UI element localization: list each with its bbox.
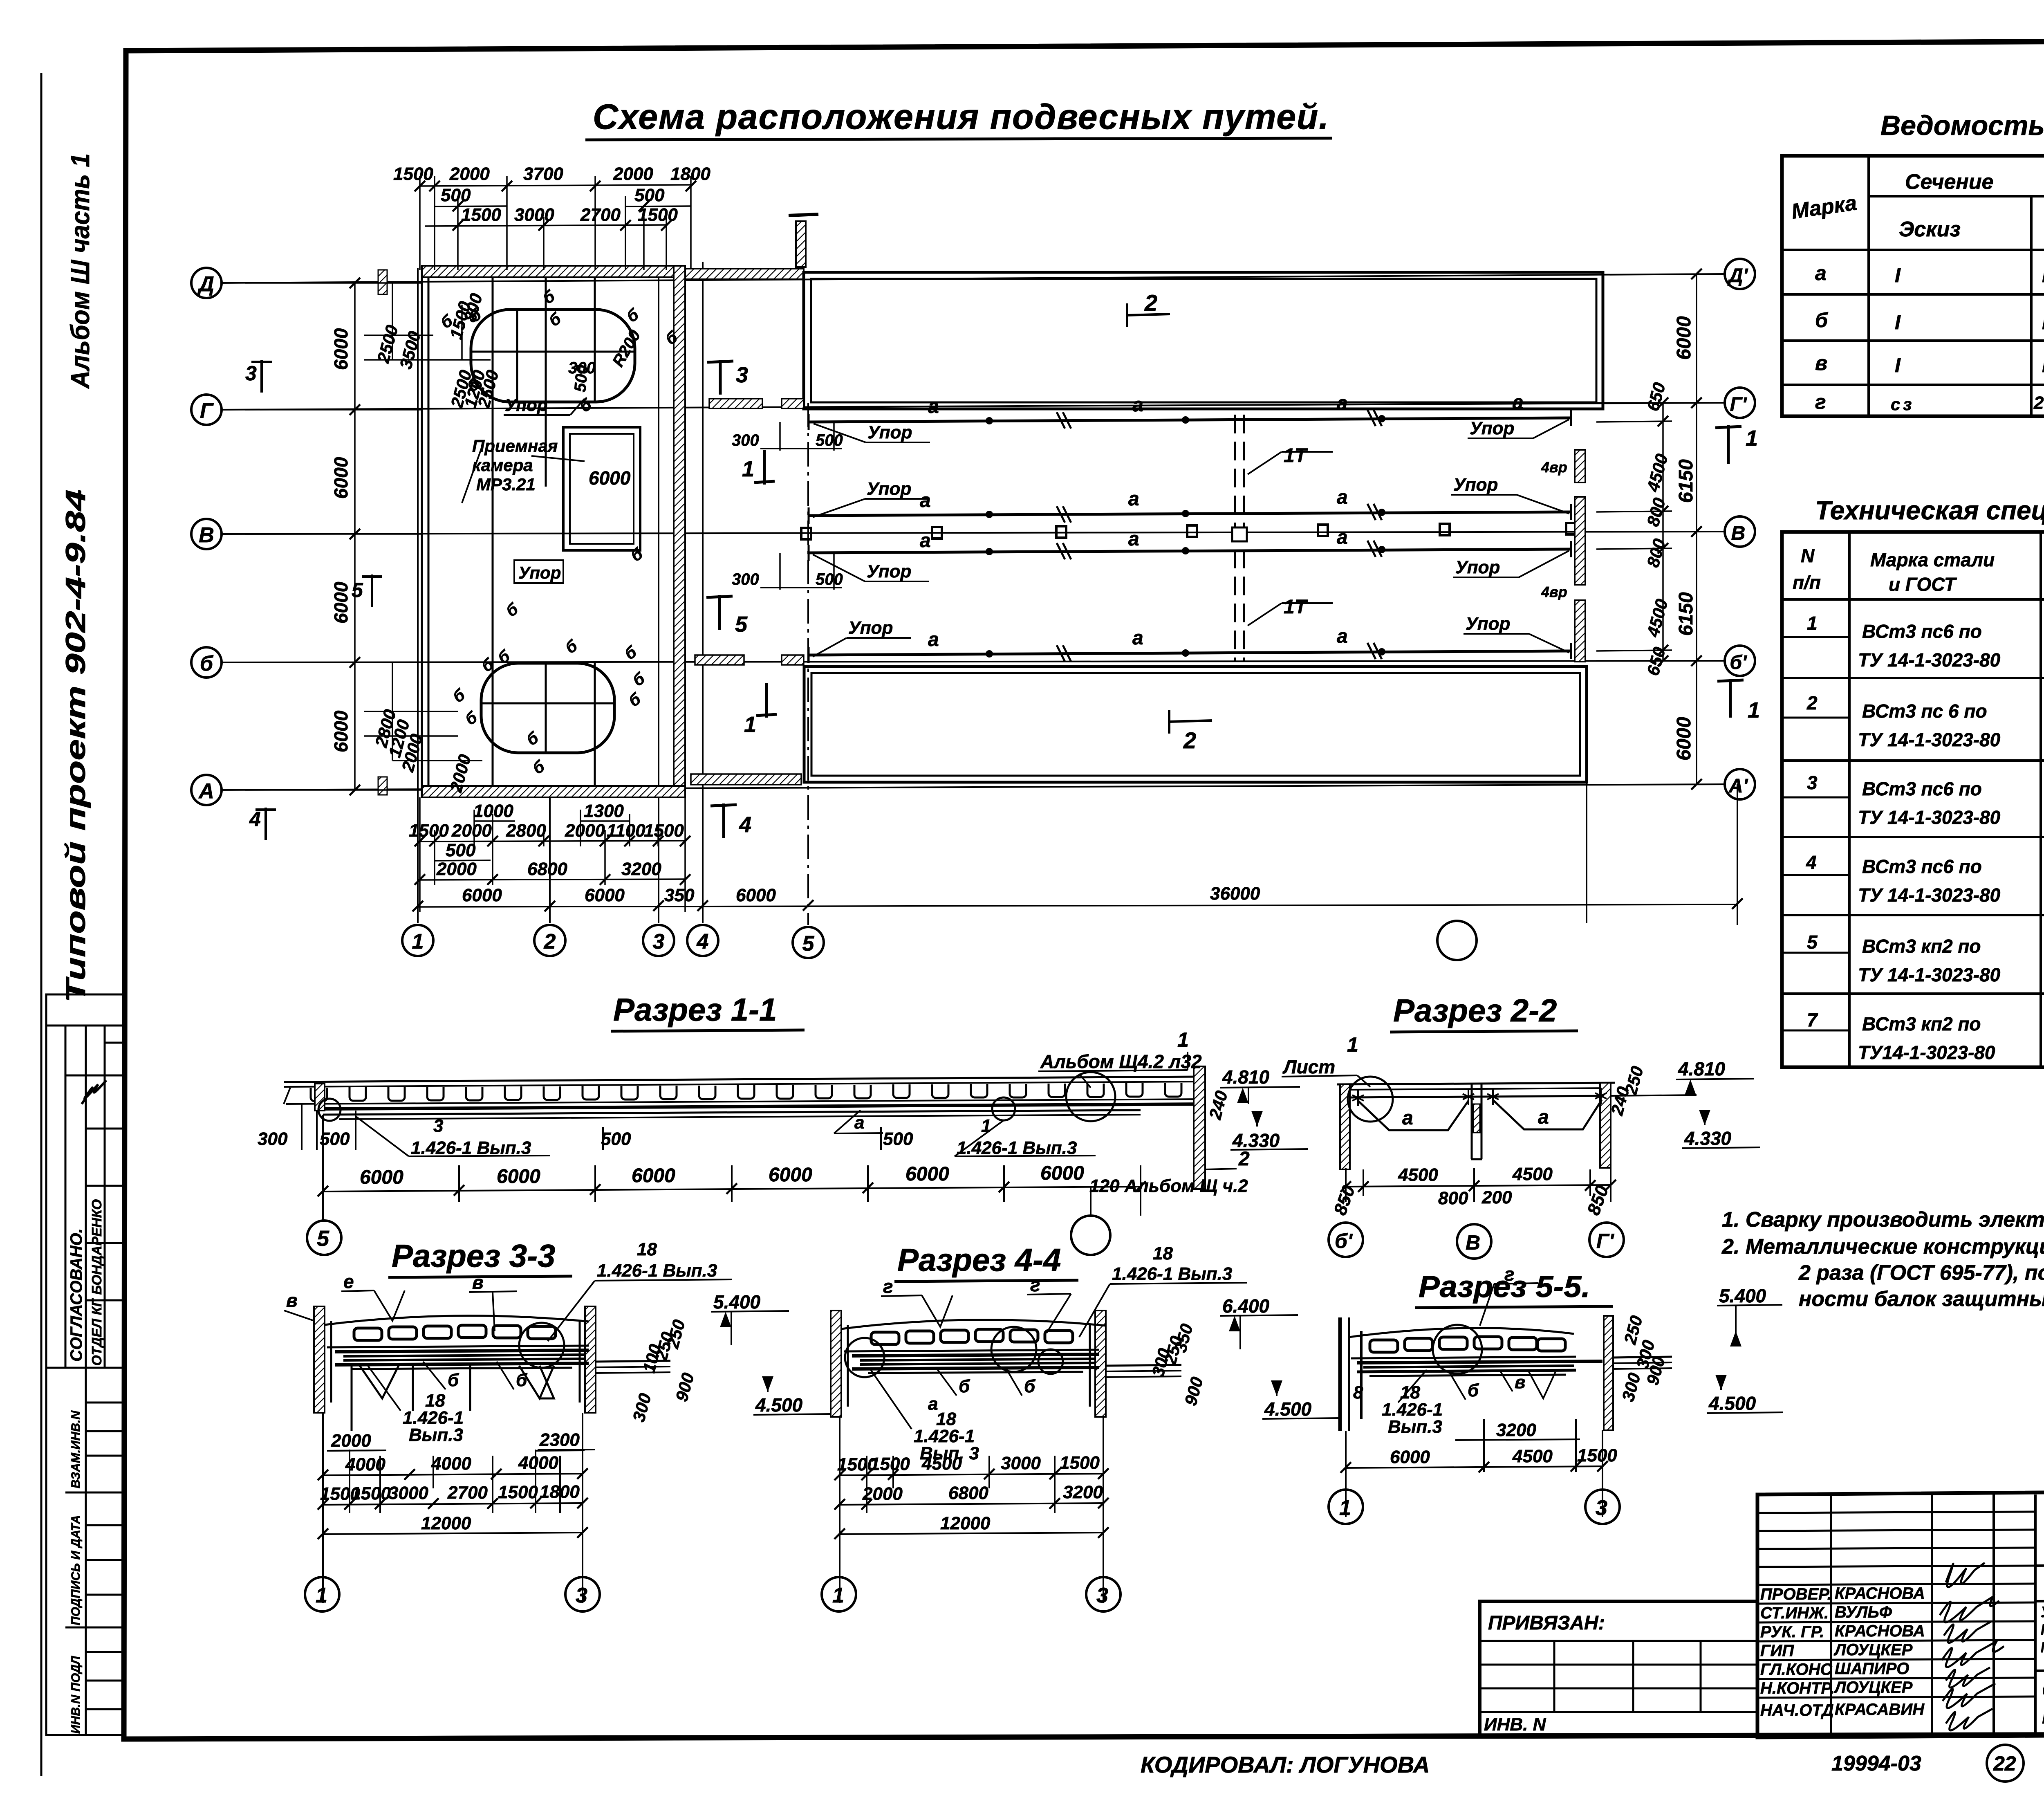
svg-text:Альбом Щ4.2 л32: Альбом Щ4.2 л32 (1040, 1051, 1202, 1072)
wall stubs on grid D and A (378, 270, 387, 294)
svg-text:4: 4 (697, 930, 709, 954)
svg-text:а: а (1337, 487, 1348, 508)
svg-text:500: 500 (816, 431, 843, 449)
svg-text:ПРИВЯЗАН:: ПРИВЯЗАН: (1488, 1612, 1605, 1634)
svg-text:а: а (1815, 262, 1827, 285)
band on axis D between buildings (685, 269, 804, 279)
grid line V (221, 532, 1725, 534)
svg-text:5: 5 (352, 579, 363, 601)
right dim chains (1587, 274, 1725, 784)
grid line A (221, 784, 1725, 790)
svg-text:18: 18 (637, 1239, 657, 1259)
svg-text:4.500: 4.500 (1264, 1398, 1312, 1420)
svg-text:а: а (920, 490, 931, 512)
svg-text:Упор: Упор (1466, 614, 1510, 634)
left grid circles (191, 268, 222, 805)
svg-text:4: 4 (739, 812, 751, 837)
svg-text:г: г (1504, 1263, 1515, 1285)
svg-text:4500: 4500 (1512, 1446, 1553, 1466)
svg-text:2: 2 (1144, 290, 1157, 316)
right wall stubs (1575, 450, 1585, 482)
svg-text:1: 1 (1339, 1496, 1351, 1520)
svg-text:2000: 2000 (565, 821, 605, 841)
svg-text:ТУ 14-1-3023-80: ТУ 14-1-3023-80 (1858, 807, 2001, 828)
svg-text:а: а (1538, 1106, 1549, 1128)
svg-text:а: а (1337, 626, 1348, 647)
svg-text:1: 1 (1347, 1033, 1358, 1056)
svg-text:6000: 6000 (330, 457, 352, 499)
svg-text:б: б (1815, 309, 1829, 332)
svg-text:ТУ 14-1-3023-80: ТУ 14-1-3023-80 (1858, 884, 2001, 906)
svg-text:6000: 6000 (462, 885, 502, 905)
svg-text:6000: 6000 (497, 1166, 540, 1187)
wall stub above tank2 left edge (796, 221, 806, 267)
svg-text:6000: 6000 (632, 1165, 675, 1187)
svg-text:2000: 2000 (613, 164, 653, 184)
svg-text:ИНВ.N ПОДЛ: ИНВ.N ПОДЛ (69, 1656, 83, 1734)
svg-text:4000: 4000 (518, 1453, 558, 1473)
svg-text:ЛОУЦКЕР: ЛОУЦКЕР (1833, 1679, 1913, 1697)
svg-text:а: а (1132, 627, 1143, 649)
svg-text:1Т: 1Т (1284, 596, 1308, 618)
svg-text:КРАСНОВА: КРАСНОВА (1835, 1584, 1925, 1602)
svg-text:Разрез 1-1: Разрез 1-1 (613, 992, 777, 1028)
svg-text:3: 3 (1807, 772, 1818, 793)
svg-text:а: а (1128, 488, 1139, 510)
svg-text:1800: 1800 (540, 1482, 580, 1502)
upper rail loop (471, 310, 635, 402)
svg-text:1800: 1800 (670, 164, 710, 184)
svg-text:Г: Г (200, 399, 214, 423)
svg-text:2000: 2000 (449, 164, 490, 184)
svg-text:I: I (2042, 264, 2044, 287)
svg-text:Упор: Упор (518, 563, 561, 582)
svg-text:а: а (854, 1113, 864, 1133)
svg-text:Г': Г' (1596, 1230, 1615, 1252)
svg-text:Сечение: Сечение (1905, 170, 1994, 194)
privyazan strip (1480, 1601, 1757, 1736)
svg-text:В: В (199, 523, 214, 547)
rail dots (986, 415, 1385, 658)
svg-text:РУК. ГР.: РУК. ГР. (1760, 1623, 1824, 1641)
right end column line (1737, 784, 1738, 925)
svg-text:б: б (1468, 1380, 1479, 1400)
svg-text:ПОДВЕСНЫХ ПУТЕЙ.: ПОДВЕСНЫХ ПУТЕЙ. (2042, 1705, 2044, 1728)
svg-text:500: 500 (601, 1129, 631, 1149)
svg-text:а: а (928, 396, 939, 417)
svg-text:3200: 3200 (1063, 1482, 1103, 1502)
svg-text:ГЛ.КОНС: ГЛ.КОНС (1760, 1661, 1833, 1679)
grid line B (221, 661, 1725, 662)
svg-text:1500: 1500 (393, 164, 433, 184)
svg-text:6800: 6800 (527, 859, 567, 879)
svg-text:5.400: 5.400 (1719, 1285, 1766, 1306)
svg-text:ПОДПИСЬ И ДАТА: ПОДПИСЬ И ДАТА (69, 1515, 83, 1625)
svg-text:1Т: 1Т (1284, 445, 1308, 467)
svg-text:ПРОИЗВОДИТЕЛЬНОСТЬЮ 70тыс.м3/с: ПРОИЗВОДИТЕЛЬНОСТЬЮ 70тыс.м3/сутки (2041, 1639, 2044, 1656)
svg-text:4000: 4000 (345, 1454, 385, 1474)
section 4-4 walls (831, 1311, 841, 1417)
svg-text:2. Металлические конструкции о: 2. Металлические конструкции окрасить ма… (1721, 1235, 2044, 1259)
svg-text:12000: 12000 (940, 1513, 991, 1533)
svg-text:1000: 1000 (473, 801, 513, 821)
svg-text:2700: 2700 (580, 205, 621, 225)
staff rows (1760, 1584, 1925, 1719)
svg-text:2300: 2300 (539, 1430, 580, 1450)
svg-text:1500: 1500 (1060, 1453, 1100, 1473)
svg-text:а: а (1513, 392, 1524, 413)
section 4-4 leader circles (845, 1338, 884, 1377)
section 4-4 roof (841, 1320, 1106, 1329)
svg-text:3: 3 (653, 930, 665, 954)
svg-text:УСТАНОВКА ДООЧИСТКИ СТОЧНЫХ ВО: УСТАНОВКА ДООЧИСТКИ СТОЧНЫХ ВОД (2041, 1604, 2044, 1620)
section 3-3 roof (325, 1316, 589, 1325)
svg-text:5: 5 (735, 612, 748, 637)
svg-text:НАЧ.ОТД: НАЧ.ОТД (1760, 1701, 1834, 1719)
svg-text:в: в (1515, 1372, 1526, 1392)
svg-text:2: 2 (1238, 1148, 1250, 1170)
roof ribs (311, 1083, 1181, 1101)
svg-text:5: 5 (317, 1226, 329, 1251)
svg-text:СОГЛАСОВАНО.: СОГЛАСОВАНО. (67, 1228, 85, 1362)
svg-text:3: 3 (1596, 1496, 1607, 1520)
svg-text:Ведомость элементов.: Ведомость элементов. (1880, 110, 2044, 141)
top wall band (422, 266, 685, 277)
right wall hatched (674, 266, 685, 797)
svg-text:СХЕМА РАСПОЛОЖЕНИЯ: СХЕМА РАСПОЛОЖЕНИЯ (2042, 1679, 2044, 1701)
section 5-5 walls (1340, 1317, 1361, 1431)
svg-text:500: 500 (446, 840, 476, 860)
svg-text:6000: 6000 (585, 885, 625, 905)
svg-text:1.426-1 Вып.3: 1.426-1 Вып.3 (1112, 1264, 1232, 1284)
lower tank 2 (804, 667, 1587, 782)
svg-text:КРАСНОВА: КРАСНОВА (1835, 1622, 1925, 1640)
svg-text:3000: 3000 (1001, 1453, 1041, 1473)
svg-text:Эскиз: Эскиз (1899, 218, 1961, 241)
svg-text:8: 8 (1353, 1382, 1363, 1403)
hopper a left (1358, 1101, 1468, 1130)
svg-text:6000: 6000 (1390, 1447, 1430, 1467)
svg-text:1500: 1500 (870, 1454, 910, 1474)
svg-text:с: с (1891, 395, 1900, 414)
svg-text:Техническая спецификация стал: Техническая спецификация стали. (1815, 496, 2044, 525)
svg-text:е: е (343, 1271, 354, 1292)
svg-text:3: 3 (576, 1584, 587, 1607)
svg-text:б': б' (1730, 652, 1747, 673)
svg-text:камера: камера (472, 456, 533, 475)
svg-text:ВСт3 пс6 по: ВСт3 пс6 по (1862, 856, 1982, 877)
svg-text:300: 300 (732, 431, 759, 449)
svg-text:2000: 2000 (436, 859, 477, 879)
svg-text:I: I (2042, 311, 2044, 334)
svg-text:1500: 1500 (644, 821, 684, 841)
svg-text:Упор: Упор (1453, 475, 1498, 495)
svg-text:4500: 4500 (921, 1454, 962, 1474)
svg-text:3000: 3000 (514, 205, 554, 225)
svg-text:г: г (1030, 1274, 1040, 1295)
svg-text:2С 60 х50х3: 2С 60 х50х3 (2033, 393, 2044, 413)
section 4-4 bottom dims (840, 1417, 1103, 1603)
section 5-5 slab holes (1370, 1340, 1398, 1352)
section 5-5 rails right (1613, 1357, 1672, 1358)
svg-text:б: б (200, 652, 214, 675)
left stamp strip (46, 994, 124, 1735)
svg-text:6000: 6000 (905, 1163, 949, 1185)
svg-text:4500: 4500 (1398, 1165, 1438, 1185)
svg-text:2000: 2000 (862, 1484, 903, 1504)
svg-text:N: N (1801, 545, 1815, 566)
grid line G (221, 403, 1725, 410)
1T dashed vertical (1235, 415, 1244, 661)
svg-text:Упор: Упор (867, 561, 911, 581)
svg-text:500: 500 (571, 364, 592, 393)
svg-text:3200: 3200 (621, 859, 661, 879)
section 3-3 circles (305, 1577, 339, 1611)
svg-text:з: з (1903, 395, 1912, 414)
svg-text:4.500: 4.500 (755, 1394, 803, 1416)
section 1-1 right wall (1194, 1066, 1205, 1189)
b letters upper loop (437, 287, 681, 778)
svg-text:б: б (1024, 1376, 1036, 1396)
svg-text:4500: 4500 (1512, 1164, 1553, 1184)
svg-text:А': А' (1728, 775, 1748, 797)
svg-text:Альбом Ш часть 1: Альбом Ш часть 1 (65, 153, 95, 389)
section 2-2 dims (1346, 1166, 1611, 1202)
svg-text:ОТДЕЛ КГ БОНДАРЕНКО: ОТДЕЛ КГ БОНДАРЕНКО (89, 1199, 104, 1366)
svg-text:а: а (1337, 527, 1348, 548)
svg-text:МР3.21: МР3.21 (476, 475, 536, 494)
svg-text:1100: 1100 (607, 821, 645, 841)
svg-text:6000: 6000 (589, 467, 631, 489)
upper tank 2 (804, 272, 1603, 409)
svg-text:ЛОУЦКЕР: ЛОУЦКЕР (1833, 1641, 1913, 1659)
svg-text:2000: 2000 (451, 821, 492, 841)
svg-text:ТУ14-1-3023-80: ТУ14-1-3023-80 (1858, 1042, 1995, 1063)
svg-text:6000: 6000 (330, 328, 352, 370)
svg-text:ВСт3 пс6 по: ВСт3 пс6 по (1862, 778, 1982, 799)
svg-text:2000: 2000 (331, 1431, 371, 1451)
svg-text:в: в (286, 1290, 298, 1311)
svg-text:I: I (1895, 264, 1901, 287)
svg-text:4000: 4000 (431, 1454, 471, 1474)
section 2-2 circles (1329, 1223, 1363, 1257)
svg-text:ПРОВЕР.: ПРОВЕР. (1760, 1585, 1832, 1603)
section 1-1 dim chain (323, 1187, 1141, 1192)
svg-text:500: 500 (883, 1129, 913, 1149)
svg-text:1500: 1500 (498, 1482, 538, 1502)
svg-text:1: 1 (316, 1584, 327, 1607)
svg-text:1300: 1300 (584, 801, 624, 821)
svg-text:2: 2 (544, 930, 556, 954)
svg-text:4вр: 4вр (1541, 583, 1567, 600)
svg-text:а: а (1337, 393, 1348, 414)
svg-text:б: б (448, 1370, 459, 1390)
hatched band pieces on A' row (691, 774, 801, 785)
svg-text:3: 3 (245, 362, 257, 385)
svg-text:ности балок защитный слой не н: ности балок защитный слой не наносится. (1799, 1287, 2044, 1311)
svg-text:1500: 1500 (409, 821, 449, 841)
svg-text:ВЗАМ.ИНВ.N: ВЗАМ.ИНВ.N (69, 1410, 83, 1488)
svg-text:4.810: 4.810 (1678, 1058, 1726, 1079)
bottom wall band (422, 786, 685, 797)
svg-text:Упор: Упор (848, 618, 893, 638)
svg-text:1: 1 (832, 1584, 844, 1607)
svg-text:36000: 36000 (1210, 884, 1260, 904)
svg-text:I: I (2042, 354, 2044, 377)
svg-text:3000: 3000 (388, 1483, 428, 1503)
svg-text:а: а (1132, 394, 1143, 416)
svg-text:ВУЛЬФ: ВУЛЬФ (1835, 1603, 1892, 1621)
svg-text:7: 7 (1807, 1009, 1818, 1030)
svg-text:Лист: Лист (1282, 1056, 1335, 1077)
right grid circles (1725, 259, 1755, 799)
svg-text:Разрез 2-2: Разрез 2-2 (1393, 992, 1557, 1028)
column line 3 (658, 268, 659, 923)
svg-text:ВСт3 пс 6 по: ВСт3 пс 6 по (1862, 700, 1987, 722)
section marks T1 T3 T4 T5 (706, 360, 1744, 838)
svg-text:6000: 6000 (1673, 717, 1695, 761)
svg-text:2 раза (ГОСТ 695-77), по грунт: 2 раза (ГОСТ 695-77), по грунтовке. На е… (1798, 1261, 2044, 1285)
svg-text:Марка стали: Марка стали (1870, 549, 1995, 570)
svg-text:1: 1 (1748, 698, 1760, 723)
labels under roof (258, 1113, 1077, 1158)
svg-text:2: 2 (1806, 692, 1818, 714)
svg-text:б': б' (1335, 1230, 1353, 1252)
svg-text:3: 3 (1096, 1584, 1108, 1607)
svg-text:I: I (1895, 354, 1901, 377)
svg-text:6000: 6000 (1673, 316, 1695, 360)
album leader circle (1066, 1072, 1115, 1121)
svg-text:1: 1 (744, 712, 756, 737)
section marks left area (245, 362, 363, 830)
svg-text:2800: 2800 (506, 821, 546, 841)
svg-text:300: 300 (732, 570, 759, 588)
receiving chamber (563, 427, 640, 550)
svg-text:а: а (928, 629, 939, 651)
rail break marks (1057, 410, 1382, 662)
svg-text:500: 500 (320, 1129, 350, 1149)
svg-text:ТУ 14-1-3023-80: ТУ 14-1-3023-80 (1858, 649, 2001, 671)
hatched band pieces on G' (709, 399, 762, 408)
signatures (1940, 1563, 2004, 1730)
section 3-3 slab holes (354, 1328, 382, 1340)
svg-text:СТ.ИНЖ.: СТ.ИНЖ. (1760, 1604, 1829, 1622)
tank 2 label (1126, 303, 1128, 327)
svg-text:6000: 6000 (330, 581, 352, 624)
svg-text:200: 200 (1481, 1187, 1512, 1207)
svg-text:4.500: 4.500 (1708, 1393, 1756, 1414)
svg-text:1500: 1500 (461, 205, 501, 225)
svg-text:I: I (1895, 311, 1901, 334)
lower rail loop (481, 663, 614, 753)
svg-text:1: 1 (1807, 613, 1818, 634)
section 2-2 slab (1337, 1083, 1615, 1097)
svg-text:Упор: Упор (505, 395, 547, 415)
hopper a right (1493, 1100, 1602, 1129)
rail end bars (809, 410, 1571, 663)
svg-text:Упор: Упор (1455, 557, 1500, 577)
section 3-3 bottom dims (323, 1413, 585, 1603)
outer margin line (40, 73, 43, 1776)
svg-text:ТУ 14-1-3023-80: ТУ 14-1-3023-80 (1858, 729, 2001, 750)
hatched band pieces on B' (695, 655, 744, 665)
hanger squares row (801, 528, 811, 539)
svg-text:1: 1 (1177, 1028, 1189, 1051)
svg-text:КРАСАВИН: КРАСАВИН (1835, 1701, 1925, 1719)
svg-text:6000: 6000 (360, 1167, 403, 1188)
svg-text:6.400: 6.400 (1222, 1295, 1270, 1317)
section 2-2 walls (1340, 1084, 1350, 1169)
svg-text:6150: 6150 (1675, 592, 1697, 636)
list leader (1348, 1077, 1393, 1122)
svg-text:500: 500 (634, 185, 665, 205)
svg-text:12000: 12000 (421, 1513, 471, 1533)
section 4-4 slab holes (871, 1332, 899, 1344)
rail 1 (a) (809, 418, 1571, 655)
svg-text:ВСт3 кп2 по: ВСт3 кп2 по (1862, 936, 1981, 957)
svg-text:ВСт3 кп2 по: ВСт3 кп2 по (1862, 1013, 1981, 1035)
svg-text:Разрез 4-4: Разрез 4-4 (897, 1242, 1061, 1278)
svg-text:В: В (1466, 1231, 1480, 1254)
svg-text:в: в (472, 1272, 484, 1293)
svg-text:Упор: Упор (867, 422, 912, 442)
svg-text:в: в (1815, 352, 1827, 375)
svg-text:а: а (920, 530, 931, 552)
svg-text:4: 4 (1806, 852, 1817, 873)
svg-text:6000: 6000 (769, 1164, 812, 1186)
grid line D (221, 274, 1725, 283)
svg-text:Типовой проект 902-4-9.84: Типовой проект 902-4-9.84 (60, 489, 91, 1003)
svg-text:п/п: п/п (1793, 572, 1821, 593)
svg-text:А: А (198, 779, 214, 803)
section 5-5 bottom dims (1346, 1419, 1602, 1517)
column line 2 (549, 793, 551, 923)
svg-text:5.400: 5.400 (713, 1291, 761, 1313)
svg-text:4вр: 4вр (1541, 459, 1567, 476)
svg-text:19994-03: 19994-03 (1831, 1752, 1921, 1775)
svg-text:1: 1 (412, 930, 424, 954)
svg-text:4.810: 4.810 (1222, 1066, 1270, 1088)
section 5-5 roof (1349, 1328, 1574, 1337)
upor labels with leaders (848, 418, 1514, 638)
section 5-5 circles (1329, 1490, 1363, 1524)
svg-text:г: г (1815, 390, 1826, 413)
svg-text:Упор: Упор (1470, 418, 1514, 438)
section 3-3 braces (352, 1364, 554, 1431)
section 1-1 bottom circles (307, 1221, 341, 1255)
a labels on rails (920, 392, 1524, 651)
left wall (421, 266, 423, 797)
svg-text:ШАПИРО: ШАПИРО (1835, 1660, 1909, 1678)
svg-text:300: 300 (258, 1129, 288, 1149)
svg-text:Схема расположения подвесных п: Схема расположения подвесных путей. (593, 97, 1329, 137)
hanger ticks on slab (1352, 1088, 1607, 1106)
svg-text:18: 18 (1153, 1243, 1173, 1263)
svg-text:1: 1 (742, 457, 754, 481)
svg-text:500: 500 (816, 570, 843, 588)
svg-text:ТУ 14-1-3023-80: ТУ 14-1-3023-80 (1858, 964, 2001, 985)
svg-text:6000: 6000 (330, 710, 352, 752)
svg-text:1500: 1500 (1577, 1445, 1617, 1465)
svg-text:Д: Д (197, 272, 214, 296)
svg-text:6000: 6000 (736, 885, 776, 905)
svg-text:2700: 2700 (447, 1483, 488, 1503)
svg-text:6150: 6150 (1675, 459, 1697, 503)
svg-text:Упор: Упор (867, 479, 911, 499)
svg-text:б: б (959, 1376, 970, 1396)
svg-text:ВСт3 пс6 по: ВСт3 пс6 по (1862, 621, 1982, 642)
svg-text:4: 4 (249, 808, 261, 830)
